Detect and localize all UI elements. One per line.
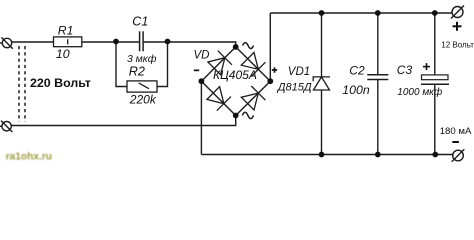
diode VD lower-left (left to bottom): [207, 87, 231, 111]
wire: node B to bridge top: [168, 42, 236, 47]
wire: top-left terminal to R1: [12, 41, 54, 43]
AC tilde at bridge top: [243, 43, 254, 49]
output plus sign: [453, 22, 462, 31]
wire stub left of bottom-left terminal: [0, 125, 2, 127]
junction dot VD1 top: [319, 10, 325, 16]
C3 plus sign: [423, 63, 430, 70]
bridge VD diamond edge bottom-right: [236, 81, 271, 115]
junction dot VD1 bottom: [319, 152, 325, 158]
svg-text:C3: C3: [397, 63, 413, 77]
junction dot C3 top: [432, 10, 438, 16]
bridge VD diamond edge top-right: [236, 47, 271, 81]
junction dot C3 bottom: [432, 152, 438, 158]
bridge VD diamond edge bottom-left: [201, 81, 235, 115]
wire: C3 branch vertical: [434, 13, 436, 155]
svg-text:180 мА: 180 мА: [440, 126, 472, 137]
wire: R1 to node A: [82, 41, 116, 43]
wire: node A to C1 left plate: [116, 41, 139, 43]
junction dot C2 bottom: [375, 152, 381, 158]
terminal X3 (+12V output, top-right): [451, 6, 464, 19]
bridge bottom vertex junction dot: [233, 113, 239, 119]
negative rail wire: [201, 154, 453, 156]
zener diode VD1 symbol: [313, 77, 330, 90]
node A junction dot: [113, 39, 119, 45]
wire: VD1 branch vertical: [321, 13, 323, 155]
wire: bottom-left terminal to bridge bottom: [11, 116, 235, 126]
positive rail wire: [270, 12, 452, 14]
terminal X4 (-12V output, bottom-right): [452, 149, 465, 162]
resistor R2 body: [127, 81, 157, 92]
svg-text:C1: C1: [132, 15, 148, 29]
terminal X1 (220V input, top-left): [1, 37, 12, 48]
capacitor C2 plates: [367, 75, 388, 80]
bridge top vertex junction dot: [233, 44, 239, 50]
bridge minus sign: [194, 70, 199, 72]
svg-text:R1: R1: [58, 24, 74, 38]
svg-text:12 Вольт: 12 Вольт: [441, 40, 474, 49]
diode VD upper-right (top to right): [241, 52, 265, 76]
svg-text:220 Вольт: 220 Вольт: [30, 76, 91, 90]
resistor R1 body: [54, 37, 82, 47]
svg-text:C2: C2: [349, 64, 365, 78]
svg-text:ra1ohx.ru: ra1ohx.ru: [6, 151, 52, 162]
wire stub left of top-left terminal: [0, 42, 2, 44]
wire: bridge plus (right vertex) up to positive rail: [269, 13, 271, 81]
node B junction dot: [165, 39, 171, 45]
capacitor C3 negative plate: [421, 83, 449, 85]
svg-text:3 мкф: 3 мкф: [127, 53, 157, 65]
svg-text:VD1: VD1: [288, 66, 310, 78]
mains cord dashed line 2: [24, 46, 26, 122]
mains cord dashed line 1: [18, 46, 20, 122]
wire: C2 branch vertical: [377, 13, 379, 155]
bridge plus sign: [272, 67, 277, 72]
svg-text:VD: VD: [194, 50, 210, 62]
wire: node A down to R2: [116, 42, 127, 87]
wire: R2 to node B: [157, 42, 168, 87]
svg-text:Д815Д: Д815Д: [276, 81, 312, 93]
wire: bridge minus (left vertex) down to negative rail: [200, 81, 202, 154]
capacitor C1 plates: [140, 31, 144, 51]
resistor R2 power tick (diagonal): [139, 83, 149, 89]
svg-text:КЦ405А: КЦ405А: [213, 68, 257, 82]
output minus sign: [452, 141, 459, 143]
svg-text:1000 мкф: 1000 мкф: [397, 86, 443, 98]
capacitor C3 positive plate (hollow): [422, 75, 449, 80]
bridge left vertex junction dot: [199, 78, 205, 84]
diode VD lower-right (bottom to right): [241, 86, 265, 110]
AC tilde at bridge bottom: [242, 112, 253, 118]
diode VD upper-left (left to top): [208, 51, 232, 75]
bridge VD diamond edge top-left: [201, 47, 235, 81]
bridge right vertex junction dot: [267, 78, 273, 84]
wire: C1 right plate to node B: [144, 41, 168, 43]
svg-text:10: 10: [56, 47, 70, 61]
svg-text:100n: 100n: [342, 83, 370, 97]
terminal X2 (220V input, bottom-left): [1, 121, 12, 132]
junction dot C2 top: [375, 10, 381, 16]
svg-text:220k: 220k: [129, 93, 157, 107]
resistor R1 power tick: [67, 39, 69, 44]
svg-text:R2: R2: [129, 65, 145, 79]
